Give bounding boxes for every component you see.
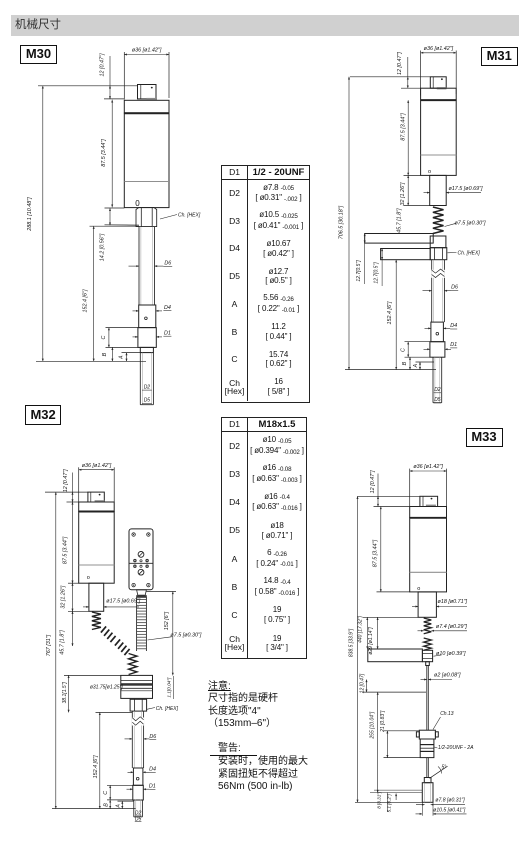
- svg-text:Ch. [HEX]: Ch. [HEX]: [458, 251, 481, 257]
- svg-text:o: o: [417, 586, 420, 592]
- svg-text:0: 0: [135, 199, 140, 208]
- svg-text:D1: D1: [450, 342, 457, 348]
- svg-text:12 [0.47"]: 12 [0.47"]: [397, 52, 403, 75]
- svg-text:B: B: [104, 803, 110, 807]
- svg-text:12.7[0.5"]: 12.7[0.5"]: [373, 262, 379, 284]
- svg-text:ø7.5 [ø0.30"]: ø7.5 [ø0.30"]: [455, 220, 486, 226]
- svg-text:D1: D1: [164, 330, 171, 336]
- svg-text:ø36 [ø1.42"]: ø36 [ø1.42"]: [132, 48, 162, 54]
- svg-text:87.5 [3.44"]: 87.5 [3.44"]: [63, 536, 69, 564]
- svg-text:87.5 [3.44"]: 87.5 [3.44"]: [373, 539, 379, 567]
- svg-text:D4: D4: [164, 305, 171, 311]
- svg-text:D6: D6: [451, 285, 458, 291]
- svg-text:1/2-20UNF - 2A: 1/2-20UNF - 2A: [438, 745, 474, 751]
- svg-text:C: C: [103, 791, 109, 795]
- svg-text:21 [0.83"]: 21 [0.83"]: [380, 710, 386, 733]
- svg-text:152 [6"]: 152 [6"]: [164, 611, 170, 630]
- svg-text:38.1[1.5"]: 38.1[1.5"]: [62, 682, 68, 704]
- svg-text:440 [17.32"]: 440 [17.32"]: [358, 615, 364, 642]
- svg-text:ø10 [ø0.39"]: ø10 [ø0.39"]: [436, 651, 466, 657]
- svg-text:D6: D6: [164, 261, 171, 267]
- svg-text:45.7 [1.8"]: 45.7 [1.8"]: [396, 208, 402, 233]
- svg-text:D4: D4: [450, 323, 457, 329]
- svg-text:B: B: [402, 361, 408, 365]
- svg-text:32 [1.26"]: 32 [1.26"]: [61, 585, 67, 608]
- svg-text:ø36 [ø1.42"]: ø36 [ø1.42"]: [413, 464, 443, 470]
- svg-text:152.4 [6"]: 152.4 [6"]: [83, 289, 89, 312]
- svg-text:12 [0.47]: 12 [0.47]: [359, 673, 365, 693]
- svg-text:45.7 [1.8"]: 45.7 [1.8"]: [59, 630, 65, 655]
- svg-text:C: C: [101, 335, 107, 339]
- svg-text:ø7.4 [ø0.29"]: ø7.4 [ø0.29"]: [436, 624, 467, 630]
- svg-text:767 [31"]: 767 [31"]: [46, 634, 52, 656]
- svg-text:A: A: [118, 355, 124, 360]
- svg-text:ø10.5 [ø0.41"]: ø10.5 [ø0.41"]: [433, 807, 466, 813]
- svg-text:ø2 [ø0.08"]: ø2 [ø0.08"]: [434, 672, 461, 678]
- svg-text:D5: D5: [135, 816, 142, 822]
- svg-text:o: o: [428, 169, 431, 175]
- svg-text:706.5 [30.18"]: 706.5 [30.18"]: [338, 205, 344, 239]
- svg-text:152.4 [6"]: 152.4 [6"]: [387, 301, 393, 324]
- svg-text:ø29 [ø1.14"]: ø29 [ø1.14"]: [368, 627, 374, 655]
- svg-text:ø31.75[ø1.25"]: ø31.75[ø1.25"]: [90, 685, 124, 691]
- svg-text:32 [1.26"]: 32 [1.26"]: [400, 182, 406, 205]
- svg-text:12 [0.47"]: 12 [0.47"]: [370, 470, 376, 493]
- svg-text:A: A: [115, 804, 121, 809]
- svg-text:288.1 [10.48"]: 288.1 [10.48"]: [27, 197, 33, 232]
- svg-text:o: o: [87, 575, 90, 581]
- svg-text:D5: D5: [144, 398, 151, 404]
- svg-text:B: B: [102, 352, 108, 356]
- svg-text:D5: D5: [434, 397, 441, 403]
- svg-text:ø7.8 [ø0.31"]: ø7.8 [ø0.31"]: [435, 798, 465, 804]
- svg-text:152.4 [6"]: 152.4 [6"]: [93, 755, 99, 778]
- svg-text:87.5 [3.44"]: 87.5 [3.44"]: [401, 113, 407, 141]
- svg-text:D2: D2: [144, 384, 151, 390]
- svg-text:14.2 [0.56"]: 14.2 [0.56"]: [100, 233, 106, 261]
- svg-text:8 [0.31"]: 8 [0.31"]: [377, 791, 382, 809]
- svg-text:12 [0.47"]: 12 [0.47"]: [63, 469, 69, 492]
- svg-text:D1: D1: [149, 784, 156, 790]
- svg-text:D4: D4: [149, 767, 156, 773]
- svg-text:12.7[0.5"]: 12.7[0.5"]: [356, 260, 362, 282]
- svg-text:1.1[0.04"]: 1.1[0.04"]: [166, 677, 171, 698]
- svg-text:255 [10.04"]: 255 [10.04"]: [369, 711, 375, 739]
- svg-text:D6: D6: [149, 734, 156, 740]
- svg-text:ø36 [ø1.42"]: ø36 [ø1.42"]: [424, 46, 454, 52]
- svg-text:838.5 [33.9"]: 838.5 [33.9"]: [349, 628, 355, 657]
- svg-text:ø36 [ø1.42"]: ø36 [ø1.42"]: [82, 463, 112, 469]
- svg-text:C: C: [401, 348, 407, 352]
- svg-text:A: A: [413, 363, 419, 368]
- svg-text:D2: D2: [434, 387, 441, 393]
- svg-text:ø7.5 [ø0.30"]: ø7.5 [ø0.30"]: [170, 632, 201, 638]
- svg-text:Ch.13: Ch.13: [440, 711, 454, 717]
- svg-text:Ch. [HEX]: Ch. [HEX]: [178, 213, 201, 219]
- svg-text:ø17.5 [ø0.69"]: ø17.5 [ø0.69"]: [449, 186, 483, 192]
- svg-text:12 [0.47"]: 12 [0.47"]: [100, 53, 106, 76]
- svg-text:ø17.5 [ø0.69"]: ø17.5 [ø0.69"]: [106, 599, 140, 605]
- svg-text:87.5 [3.44"]: 87.5 [3.44"]: [101, 139, 107, 167]
- svg-text:Ch. [HEX]: Ch. [HEX]: [156, 706, 179, 712]
- svg-text:ø18 [ø0.71"]: ø18 [ø0.71"]: [438, 599, 468, 605]
